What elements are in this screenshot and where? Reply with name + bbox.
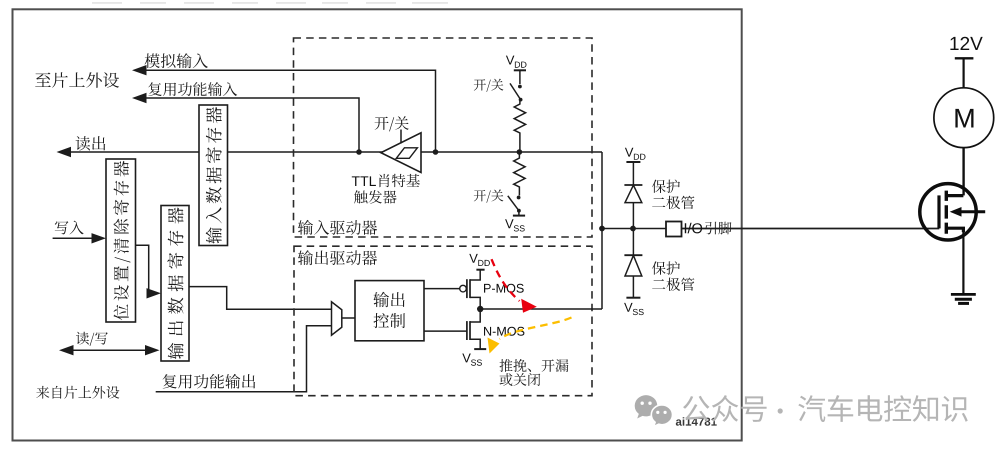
input driver dashed box (输入驱动器): [294, 38, 593, 237]
wire MOSFET source to ground: [962, 230, 964, 294]
wire I/O node to diode D2: [632, 229, 634, 256]
label 位设置/清除寄存器 (vertical): [113, 161, 130, 320]
label 触发器: [354, 190, 397, 204]
label 12V: [950, 37, 982, 50]
wire: write (写入) into bit set/clear register: [53, 237, 99, 239]
watermark text 公众号: [683, 395, 767, 422]
wire mux to output control: [342, 317, 355, 319]
wire 12V to motor: [962, 58, 964, 88]
wire: I/O horizontal line to pin: [602, 228, 666, 230]
label VSS (N-MOS source): [462, 354, 482, 366]
bit set/clear register box (位设置/清除寄存器): [106, 159, 136, 322]
VDD supply (P-MOS source): [476, 269, 484, 271]
label VDD (protection): [625, 148, 646, 160]
GPIO port enclosure box: [13, 9, 742, 440]
wire VDD to diode D1: [632, 162, 634, 185]
wire: output control to P-MOS gate: [424, 288, 460, 290]
VSS supply (protection): [626, 297, 640, 299]
red dashed current arrow (P-MOS path): [492, 259, 520, 301]
wire: read line down to I/O net and to output drain: [601, 152, 603, 309]
label 输出数据寄存器 (vertical): [167, 207, 183, 359]
label VDD (P-MOS source): [469, 254, 490, 266]
VDD supply (pull-up): [514, 69, 526, 71]
yellow dashed current arrow (N-MOS path): [500, 318, 572, 340]
VSS supply (N-MOS source): [474, 348, 486, 350]
node: protection diode junction: [630, 226, 636, 232]
VSS supply (pull-down): [513, 215, 525, 217]
transistor N-MOS: [466, 321, 468, 340]
wire: output stage drain line: [480, 308, 602, 310]
resistor R2 (pull-down): [514, 154, 525, 196]
label 开/关 (S1): [474, 79, 504, 92]
P-MOS gate bubble: [460, 285, 467, 292]
label 至片上外设: [35, 72, 119, 88]
label 保护 (upper): [652, 180, 680, 194]
label 写入: [55, 221, 84, 235]
transistor Q1 N-MOSFET (external): [920, 184, 976, 240]
I/O pin square: [666, 222, 682, 237]
wire: analog input (模拟输入): [146, 70, 436, 152]
label 输入数据寄存器 (vertical): [206, 107, 222, 244]
label 推挽、开漏: [500, 359, 569, 372]
label 读出: [76, 136, 106, 151]
cropped text remnant (top edge): [92, 2, 122, 4]
TTL Schmitt trigger U1: [381, 133, 421, 173]
label VDD (pull-up): [506, 56, 527, 68]
node: pull chain junction on read line: [517, 149, 523, 155]
label 二极管 (upper): [652, 196, 694, 209]
wire: Schmitt trigger on/off control: [400, 130, 402, 144]
wire: alternate-function input (复用功能输入): [146, 98, 359, 152]
label N-MOS: [484, 327, 524, 336]
label 开/关 (S2): [474, 190, 504, 203]
output control box (输出控制): [355, 281, 424, 341]
wire diode D1 to I/O node: [632, 203, 634, 229]
ground symbol: [951, 293, 976, 296]
label 输出 (control line1): [373, 292, 404, 307]
watermark WeChat icon: [635, 395, 658, 418]
label 控制 (control line2): [374, 313, 406, 328]
watermark text 汽车电控知识: [798, 395, 967, 422]
protection diode D2 (to VSS): [624, 254, 642, 256]
label M (motor): [955, 109, 973, 128]
label 复用功能输出: [163, 374, 256, 389]
label I/O: [685, 223, 702, 234]
label P-MOS: [484, 284, 524, 293]
node: push-pull drain junction: [477, 306, 483, 312]
node: AF input junction on read line: [356, 149, 362, 155]
protection diode D1 (to VDD): [624, 184, 642, 186]
hysteresis symbol: [396, 148, 417, 159]
label 开/关 (trigger control): [375, 116, 409, 131]
label 保护 (lower): [652, 261, 680, 275]
resistor R1 (pull-up): [514, 101, 525, 150]
label 读/写: [76, 332, 108, 346]
label 复用功能输入: [148, 82, 237, 96]
wire switch S2 to VSS: [518, 211, 520, 216]
node: analog input junction on read line: [433, 149, 439, 155]
VDD supply (protection): [626, 161, 640, 163]
label 二极管 (lower): [652, 278, 694, 291]
wire motor to MOSFET drain: [962, 148, 964, 196]
label 输入驱动器: [298, 220, 377, 235]
Q1 body arrow: [950, 207, 962, 217]
watermark id ai14781: [676, 417, 717, 425]
label 肖特基: [379, 174, 420, 187]
wire diode D2 to VSS: [632, 276, 634, 298]
label TTL (trigger): [352, 176, 376, 186]
switch S1 (开/关) pull-up enable: [518, 85, 522, 89]
wire: bit set/clear register to output data register: [136, 245, 154, 293]
wire: output data register to output mux: [189, 287, 332, 310]
label 模拟输入: [145, 53, 208, 68]
watermark separator dot: [778, 408, 783, 413]
output driver dashed box (输出驱动器): [294, 246, 592, 396]
wire: read-out line (读出) to Schmitt trigger and I/O column: [70, 151, 602, 153]
label 来自片上外设: [36, 386, 119, 399]
wire: output control to N-MOS gate: [424, 330, 467, 332]
transistor P-MOS: [466, 279, 468, 298]
wire: I/O pin to external MOSFET gate: [682, 228, 940, 230]
output mux (trapezoid): [332, 302, 342, 335]
label VSS (pull-down): [505, 219, 525, 231]
wire: alternate-function output (复用功能输出): [156, 326, 332, 392]
label 引脚: [705, 222, 732, 235]
input data register box (输入数据寄存器): [199, 105, 228, 246]
wire VDD to switch S1: [519, 70, 521, 84]
motor M1 (circle): [934, 88, 994, 148]
label 输出驱动器: [298, 250, 377, 265]
12V supply bar: [955, 57, 974, 59]
switch S2 (开/关) pull-down enable: [517, 196, 521, 200]
output data register box (输出数据寄存器): [161, 206, 189, 362]
node: I/O junction left: [599, 226, 605, 232]
label 或关闭: [500, 373, 541, 386]
label VSS (protection): [624, 303, 644, 315]
wire: read/write (读/写) double arrow: [73, 349, 147, 351]
